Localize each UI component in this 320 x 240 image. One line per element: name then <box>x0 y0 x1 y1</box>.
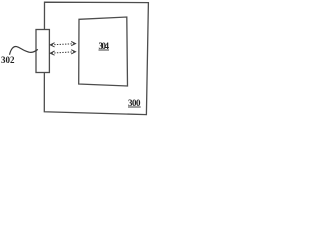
dashed arrow 1 shaft <box>52 44 75 45</box>
dashed arrow 2 left head <box>50 51 54 55</box>
svg-text:302: 302 <box>1 55 15 65</box>
dashed arrow 1 left head <box>50 43 54 47</box>
dashed arrow 1 right head <box>71 42 75 46</box>
component rect 302 (straddles enclosure wall) <box>36 30 49 73</box>
svg-text:300: 300 <box>128 98 141 108</box>
module box 304 <box>79 17 128 86</box>
enclosure box 300 <box>44 2 148 114</box>
dashed arrow 2 shaft <box>52 52 75 53</box>
dashed arrow 2 right head <box>71 50 75 54</box>
label 300 underline <box>128 106 141 108</box>
squiggly leader line <box>10 46 38 54</box>
svg-text:304: 304 <box>99 41 110 51</box>
label 304 underline <box>99 49 110 51</box>
